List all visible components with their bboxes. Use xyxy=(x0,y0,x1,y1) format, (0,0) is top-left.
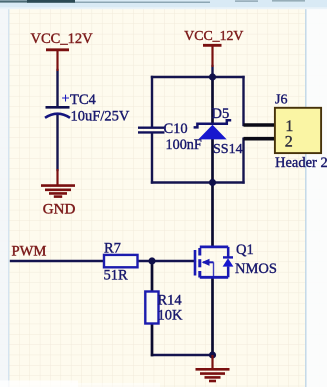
svg-text:10K: 10K xyxy=(158,308,184,324)
svg-text:J6: J6 xyxy=(275,93,287,108)
svg-text:R14: R14 xyxy=(158,293,183,309)
svg-text:GND: GND xyxy=(43,202,76,218)
svg-text:Header 2: Header 2 xyxy=(275,155,327,171)
svg-text:+: + xyxy=(61,91,70,107)
svg-text:C10: C10 xyxy=(164,121,188,137)
svg-text:NMOS: NMOS xyxy=(235,261,277,277)
svg-text:VCC_12V: VCC_12V xyxy=(184,28,243,43)
svg-text:51R: 51R xyxy=(104,268,129,284)
svg-text:1: 1 xyxy=(285,118,293,135)
svg-text:D5: D5 xyxy=(212,106,230,122)
svg-text:10uF/25V: 10uF/25V xyxy=(71,109,130,125)
svg-text:TC4: TC4 xyxy=(70,92,97,108)
svg-text:SS14: SS14 xyxy=(213,142,243,157)
svg-text:100nF: 100nF xyxy=(166,137,202,153)
svg-text:PWM: PWM xyxy=(12,244,47,260)
svg-text:R7: R7 xyxy=(104,241,121,257)
svg-text:2: 2 xyxy=(285,133,293,150)
svg-text:VCC_12V: VCC_12V xyxy=(31,31,94,47)
svg-text:Q1: Q1 xyxy=(236,242,254,258)
